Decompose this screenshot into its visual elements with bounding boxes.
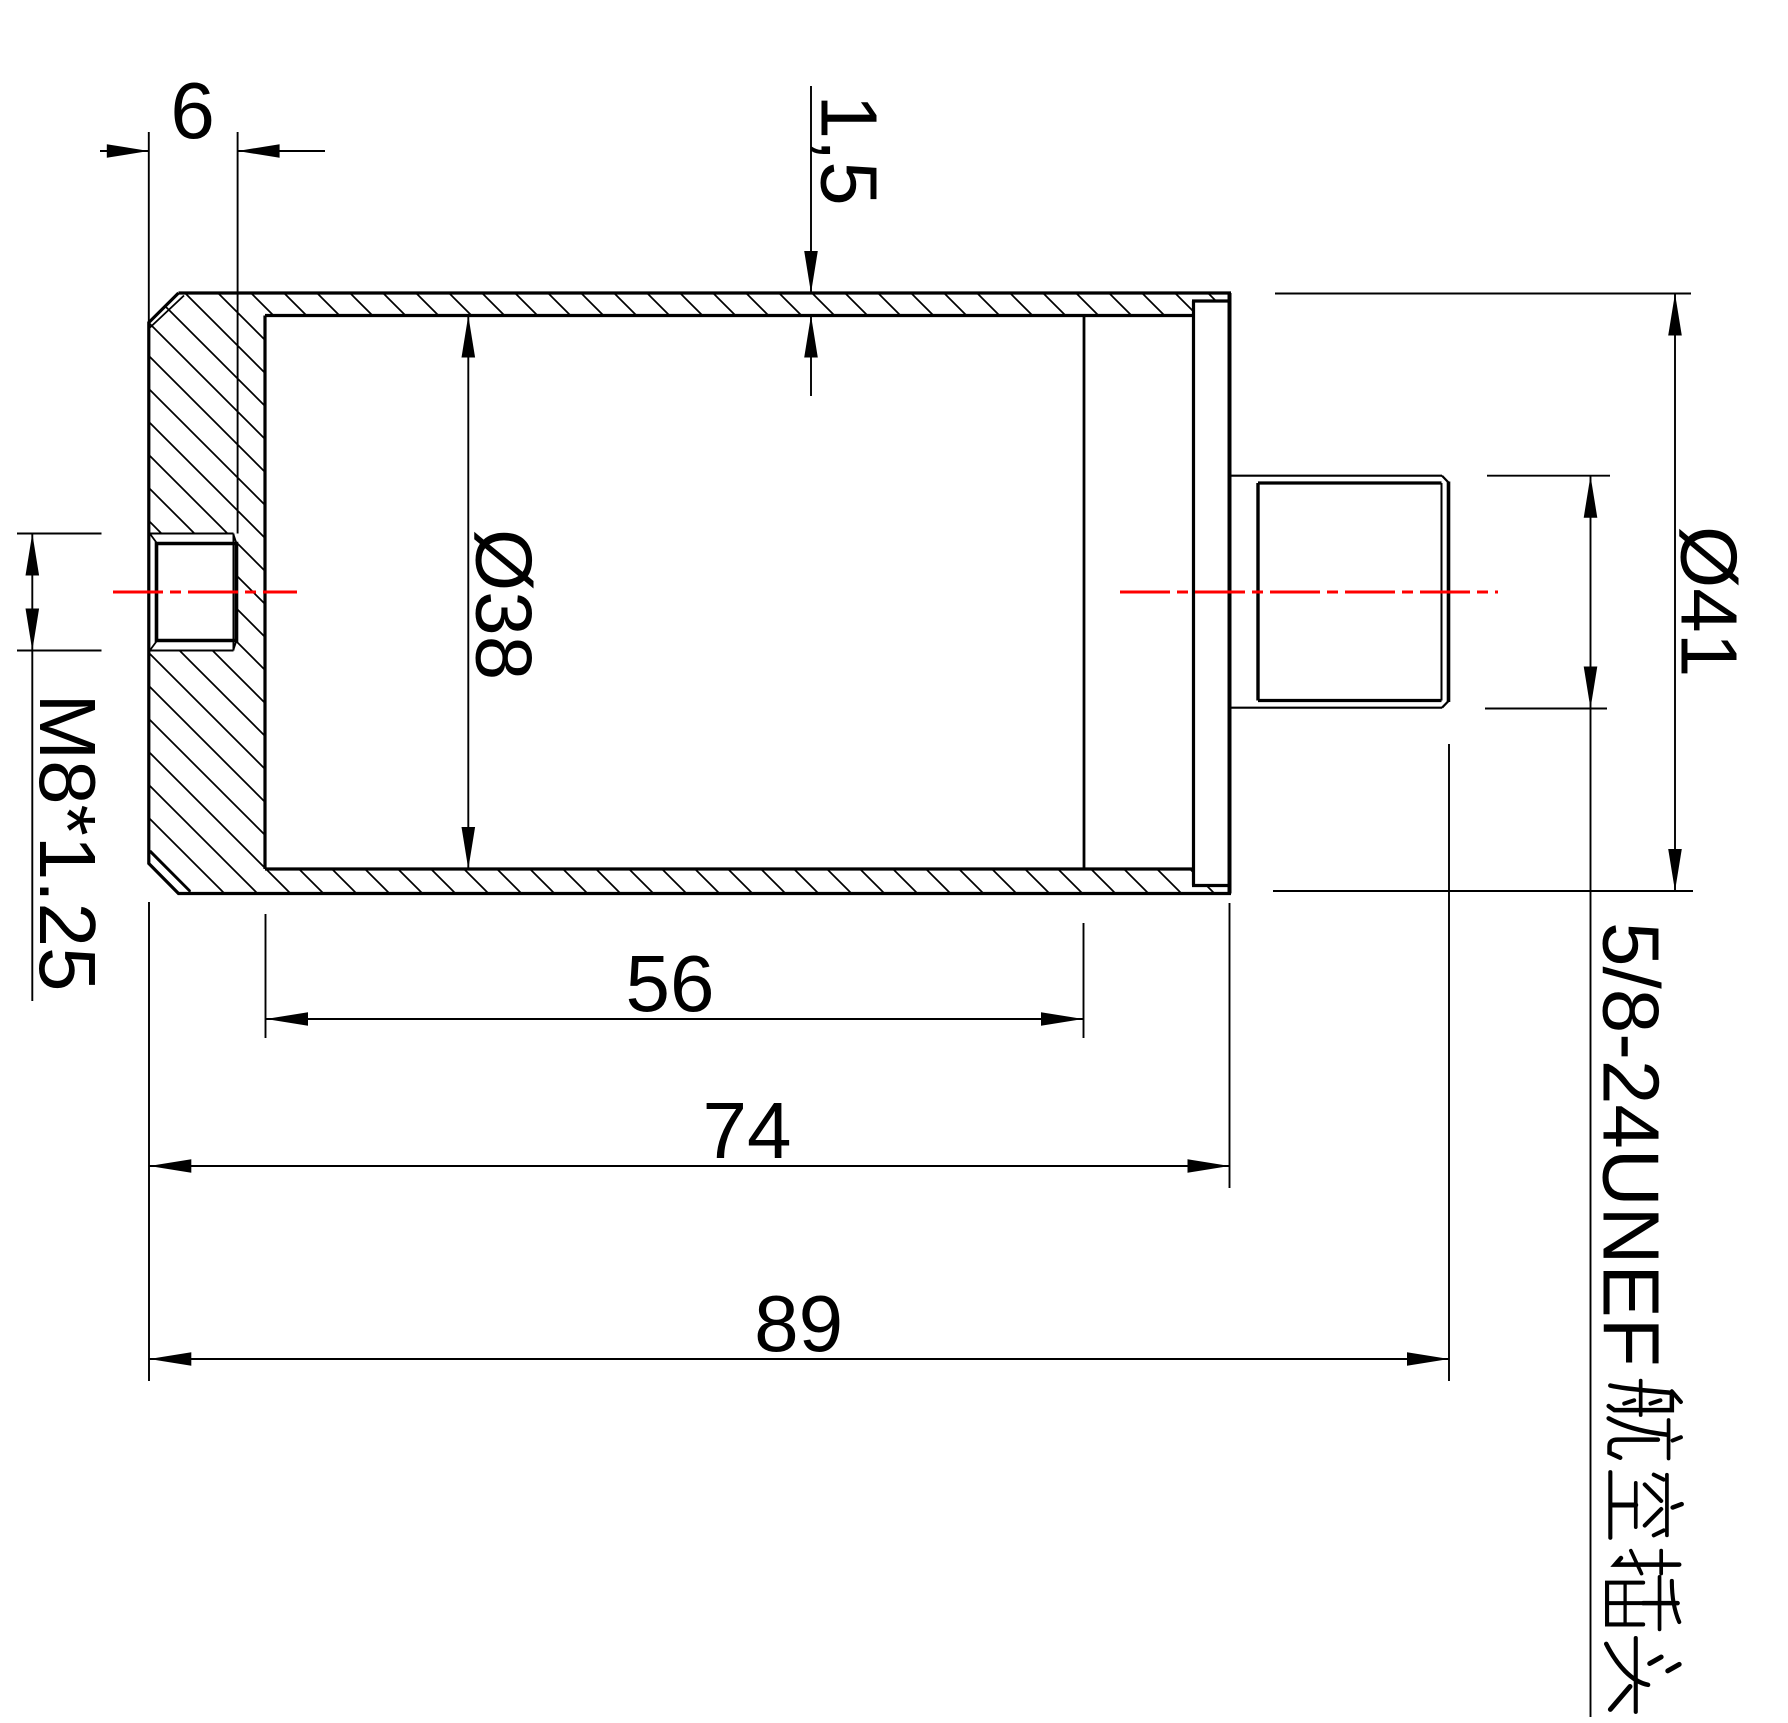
svg-text:1,5: 1,5 bbox=[805, 95, 894, 206]
svg-text:5/8-24UNEF: 5/8-24UNEF bbox=[1587, 922, 1676, 1367]
svg-text:6: 6 bbox=[170, 66, 215, 155]
svg-text:56: 56 bbox=[626, 939, 715, 1028]
svg-text:Ø41: Ø41 bbox=[1665, 526, 1754, 677]
svg-text:89: 89 bbox=[754, 1279, 843, 1368]
svg-text:74: 74 bbox=[703, 1086, 792, 1175]
svg-text:Ø38: Ø38 bbox=[460, 529, 549, 680]
svg-text:M8*1.25: M8*1.25 bbox=[23, 694, 112, 992]
